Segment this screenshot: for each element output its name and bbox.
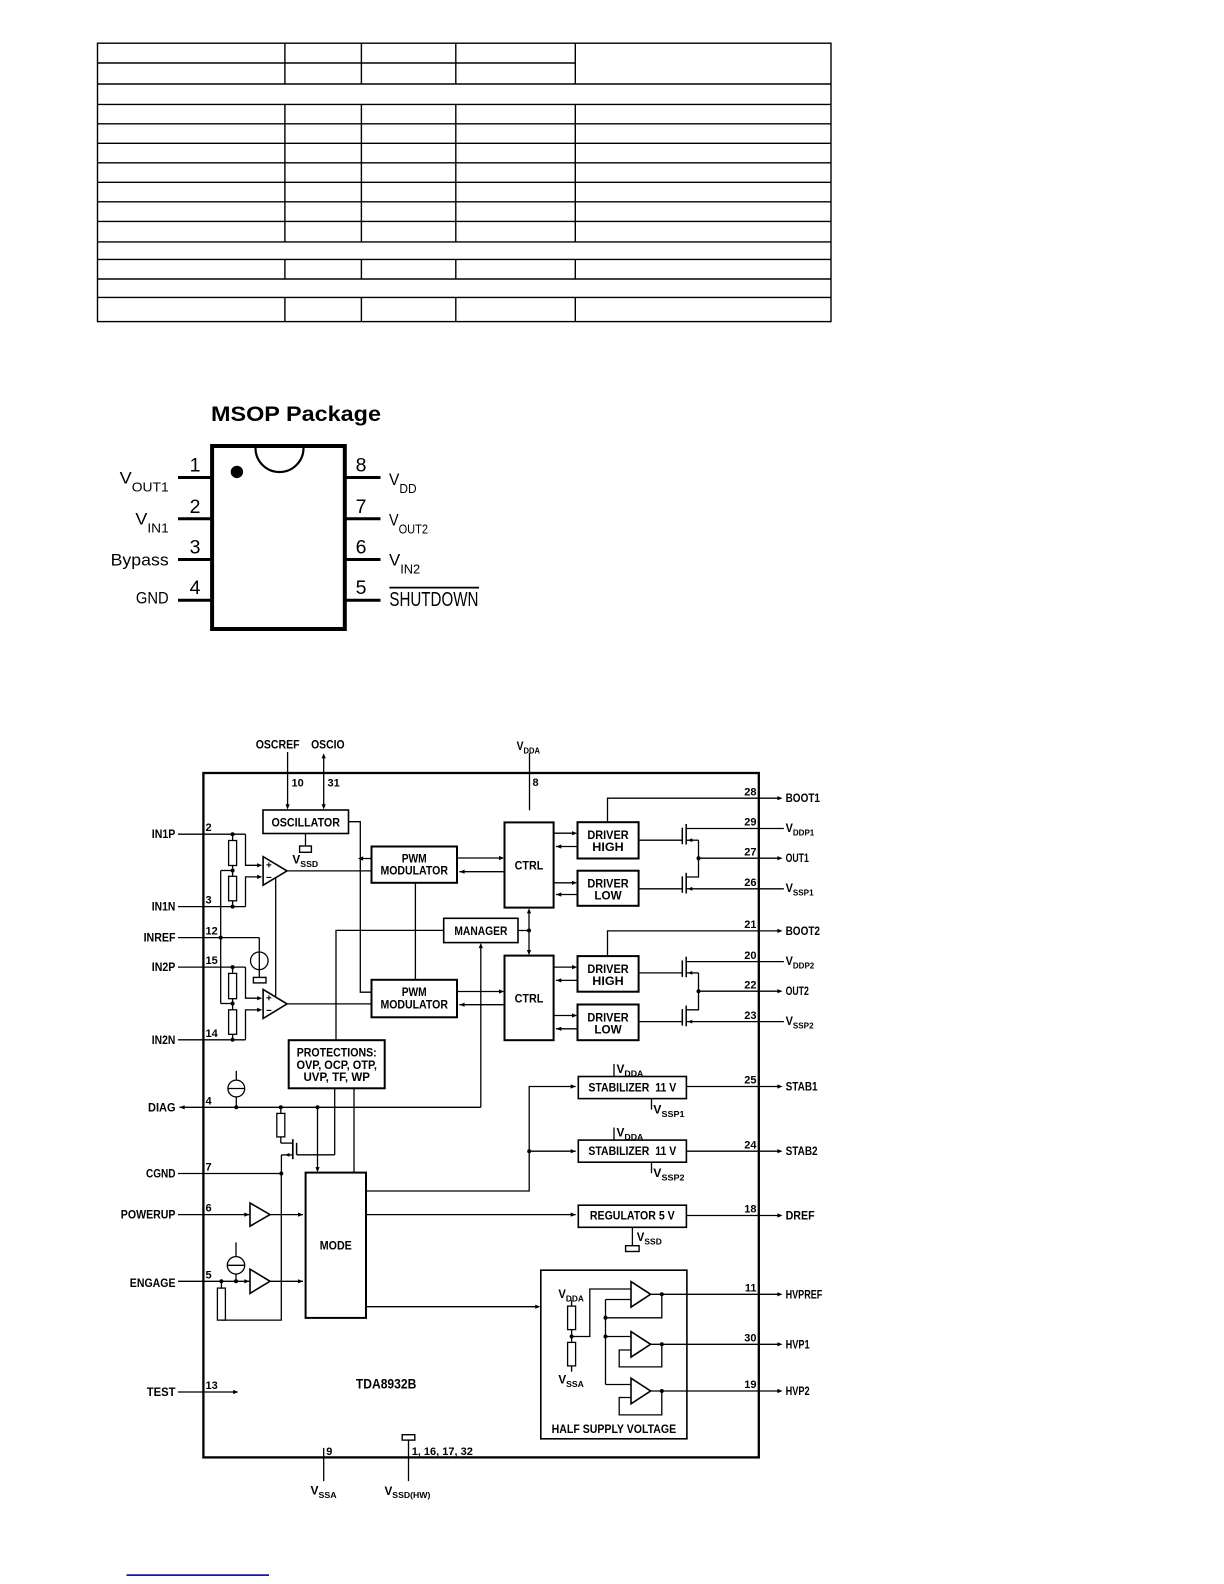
- svg-text:6: 6: [206, 1203, 212, 1215]
- DRIVER HIGH 1 block: [578, 822, 639, 858]
- current source INREF bias: [250, 938, 268, 978]
- pin 11 HVPREF: [745, 1283, 822, 1302]
- VSSP2 return STABILIZER2: [652, 1162, 685, 1182]
- svg-text:26: 26: [744, 877, 756, 889]
- pin 28 BOOT1: [744, 786, 820, 805]
- pin 6 POWERUP: [121, 1203, 250, 1222]
- svg-text:4: 4: [190, 577, 201, 599]
- table grid: [98, 43, 832, 321]
- VSSD(HW) pad: [402, 1435, 415, 1440]
- label VDD: [389, 470, 417, 496]
- pin 25 STAB1: [686, 1075, 818, 1094]
- label GND: [136, 588, 169, 607]
- svg-text:TDA8932B: TDA8932B: [356, 1376, 417, 1392]
- wire CTRL1 to PWM1: [459, 870, 504, 874]
- node buffer2 output: [660, 1342, 664, 1346]
- PWM modulator 1 block: [372, 847, 458, 883]
- svg-text:MODE: MODE: [320, 1239, 352, 1253]
- MSOP package body U1: [212, 446, 345, 629]
- pins 1,16,17,32 VSSD(HW): [385, 1440, 473, 1500]
- resistor DIAG series: [277, 1107, 285, 1143]
- node buffer1 output: [660, 1292, 664, 1296]
- MANAGER block: [444, 918, 518, 942]
- pin 20 VDDP2: [744, 950, 814, 971]
- wire comparator1 output to PWM modulator 1: [287, 870, 372, 872]
- svg-text:SHUTDOWN: SHUTDOWN: [389, 589, 478, 611]
- wire MODE to STABILIZER2: [529, 1149, 576, 1153]
- svg-text:OSCIO: OSCIO: [311, 740, 345, 752]
- wire PROTECTIONS to DIAG MOSFET gate: [334, 1088, 336, 1155]
- svg-text:HIGH: HIGH: [592, 840, 623, 854]
- svg-text:UVP, TF, WP: UVP, TF, WP: [303, 1070, 370, 1084]
- svg-text:STAB2: STAB2: [786, 1146, 818, 1158]
- buffer half-supply 1: [631, 1282, 651, 1308]
- MSOP pin 3: [178, 537, 212, 560]
- wire linking comparator bias: [275, 878, 277, 996]
- DRIVER HIGH 2 block: [578, 956, 639, 992]
- node buffer3 output: [660, 1389, 664, 1393]
- svg-text:1, 16, 17, 32: 1, 16, 17, 32: [412, 1446, 473, 1458]
- svg-text:STABILIZER 11 V: STABILIZER 11 V: [588, 1081, 676, 1095]
- svg-text:19: 19: [744, 1379, 756, 1391]
- svg-text:28: 28: [744, 786, 756, 798]
- MSOP pin 4: [178, 577, 212, 600]
- svg-text:CTRL: CTRL: [515, 859, 544, 873]
- pin 3 IN1N: [152, 895, 246, 914]
- oscillator block: [263, 810, 349, 834]
- svg-text:MODULATOR: MODULATOR: [380, 864, 448, 878]
- wire PROTECTIONS to MANAGER: [336, 930, 444, 1040]
- label SHUTDOWN (active low): [389, 588, 479, 612]
- wire CTRL1 to DRIVER LOW 1: [554, 881, 578, 885]
- pin 12 INREF: [144, 926, 260, 945]
- svg-text:OSCREF: OSCREF: [256, 740, 300, 752]
- svg-text:25: 25: [744, 1075, 756, 1087]
- svg-text:5: 5: [356, 577, 367, 599]
- resistor input divider R4: [229, 1004, 237, 1040]
- wire DRIVER LOW 2 to CTRL2: [556, 1027, 578, 1031]
- VSSA return divider: [558, 1375, 584, 1389]
- svg-text:INREF: INREF: [144, 933, 176, 945]
- part name TDA8932B: [356, 1376, 417, 1392]
- svg-text:14: 14: [206, 1028, 219, 1040]
- svg-text:DIAG: DIAG: [148, 1102, 176, 1114]
- svg-text:IN2N: IN2N: [152, 1035, 176, 1047]
- wire MODE to HALF SUPPLY VOLTAGE: [366, 1305, 540, 1309]
- svg-text:IN1P: IN1P: [152, 829, 176, 841]
- pin 26 VSSP1: [744, 877, 814, 898]
- wire BOOT1 from DRIVER HIGH 1: [608, 798, 759, 822]
- buffer half-supply 2: [631, 1332, 651, 1358]
- svg-text:OUT1: OUT1: [786, 853, 810, 865]
- svg-text:6: 6: [356, 537, 367, 559]
- wire DIAG to MANAGER: [479, 943, 483, 1107]
- svg-text:11: 11: [745, 1283, 757, 1295]
- svg-text:IN2P: IN2P: [152, 962, 176, 974]
- wire INREF to divider midpoints: [220, 871, 222, 1004]
- resistor input divider R2: [229, 871, 237, 907]
- pin 22 OUT2: [744, 979, 809, 998]
- VSSD pad under INREF current source: [253, 977, 266, 983]
- wire CTRL1 to DRIVER HIGH 1: [554, 831, 578, 835]
- svg-text:HVPREF: HVPREF: [786, 1289, 823, 1301]
- CTRL block 1: [505, 822, 554, 907]
- wire bus to buffer2 input: [606, 1336, 632, 1338]
- svg-text:29: 29: [744, 817, 756, 829]
- pin 9 VSSA: [311, 1446, 337, 1500]
- svg-text:8: 8: [533, 777, 539, 789]
- svg-text:TEST: TEST: [147, 1387, 176, 1399]
- pin 2 IN1P: [152, 822, 246, 841]
- svg-text:27: 27: [744, 846, 756, 858]
- node DIAG resistor junction: [279, 1105, 283, 1109]
- svg-text:HIGH: HIGH: [592, 974, 623, 988]
- op-amp comparator 2: [263, 989, 287, 1018]
- pin 29 VDDP1: [744, 817, 814, 838]
- svg-text:STABILIZER 11 V: STABILIZER 11 V: [588, 1144, 676, 1158]
- wire IN1P to comparator + input: [246, 834, 263, 867]
- node INREF junction: [219, 936, 223, 940]
- pin 14 IN2N: [152, 1028, 246, 1047]
- pin 19 HVP2: [744, 1379, 809, 1398]
- wire comparator2 output to PWM modulator 2: [287, 1003, 372, 1005]
- MSOP pin-1 dot: [231, 466, 243, 478]
- current source DIAG pull-up: [228, 1071, 245, 1107]
- svg-text:MSOP Package: MSOP Package: [211, 402, 381, 426]
- svg-text:2: 2: [206, 822, 212, 834]
- resistor ENGAGE pulldown: [217, 1281, 225, 1320]
- svg-text:HALF SUPPLY VOLTAGE: HALF SUPPLY VOLTAGE: [552, 1422, 677, 1436]
- MSOP pin 7: [345, 496, 381, 519]
- MSOP pin 1: [178, 455, 212, 478]
- svg-text:30: 30: [744, 1333, 756, 1345]
- STABILIZER 11V block 1: [578, 1077, 686, 1099]
- resistor half-supply divider top: [568, 1306, 576, 1336]
- VSSP1 return STABILIZER1: [652, 1099, 685, 1119]
- wire bus to buffer3 input: [606, 1384, 632, 1386]
- wire oscillator output to PWM modulators: [349, 822, 372, 993]
- svg-text:18: 18: [744, 1204, 756, 1216]
- svg-text:3: 3: [206, 895, 212, 907]
- svg-text:HVP2: HVP2: [786, 1386, 810, 1398]
- node ENGAGE current source junction: [234, 1279, 238, 1283]
- wire CTRL2 to DRIVER HIGH 2: [554, 965, 578, 969]
- node divider2 midpoint: [221, 1002, 235, 1006]
- label VOUT1: [120, 469, 169, 495]
- node ENGAGE resistor junction: [219, 1279, 223, 1283]
- buffer ENGAGE input: [244, 1269, 270, 1293]
- svg-text:31: 31: [328, 777, 340, 789]
- pin 30 HVP1: [744, 1333, 810, 1352]
- MSOP package pinout title: [211, 402, 381, 426]
- wire CGND to ENGAGE pulldown: [221, 1174, 281, 1321]
- pin 8 VDDA: [517, 741, 540, 810]
- transistor low-side MOSFET 2: [639, 991, 759, 1026]
- svg-text:OSCILLATOR: OSCILLATOR: [271, 815, 340, 829]
- svg-text:BOOT2: BOOT2: [786, 926, 820, 938]
- svg-text:CGND: CGND: [146, 1169, 176, 1181]
- pin 13 TEST: [147, 1380, 239, 1399]
- wire MODE to REGULATOR: [366, 1213, 576, 1217]
- node half-supply midpoint: [570, 1335, 574, 1339]
- node CGND junction: [279, 1172, 283, 1176]
- IC boundary box TDA8932B: [203, 773, 758, 1457]
- svg-text:GND: GND: [136, 588, 169, 607]
- svg-text:13: 13: [206, 1380, 218, 1392]
- svg-text:5: 5: [206, 1269, 212, 1281]
- wire OUT2 to pin: [699, 990, 759, 992]
- node OUT1: [697, 856, 701, 860]
- wire buffer2 output HVP1: [651, 1343, 759, 1345]
- wire IN2P to comparator2 + input: [246, 967, 263, 1000]
- VDDA feed divider: [558, 1289, 584, 1306]
- VSSD pad under REGULATOR: [626, 1227, 662, 1251]
- HALF SUPPLY VOLTAGE block: [541, 1270, 687, 1439]
- resistor input divider R3: [229, 967, 237, 1003]
- wire ENGAGE buffer to MODE: [270, 1279, 303, 1283]
- wire buffer1 output HVPREF: [651, 1293, 759, 1295]
- pin 18 DREF: [686, 1204, 814, 1223]
- resistor input divider R1: [229, 834, 237, 870]
- node DIAG current source junction: [234, 1105, 238, 1109]
- VDDA feed STABILIZER1: [614, 1064, 643, 1078]
- wire buffer2 feedback loop: [619, 1344, 662, 1367]
- MODE block: [306, 1173, 366, 1318]
- STABILIZER 11V block 2: [578, 1140, 686, 1162]
- pin 10 OSCREF: [256, 740, 304, 810]
- svg-text:IN1N: IN1N: [152, 902, 176, 914]
- PWM modulator 2 block: [372, 980, 458, 1018]
- svg-text:REGULATOR 5 V: REGULATOR 5 V: [590, 1208, 675, 1222]
- label VOUT2: [389, 510, 428, 536]
- pin 15 IN2P: [152, 955, 246, 974]
- pin 23 VSSP2: [744, 1010, 814, 1031]
- wire MODE to stabilizers: [366, 1084, 576, 1191]
- svg-text:Bypass: Bypass: [111, 551, 169, 570]
- svg-text:POWERUP: POWERUP: [121, 1210, 176, 1222]
- wire POWERUP buffer to MODE: [270, 1213, 303, 1217]
- svg-text:24: 24: [744, 1139, 757, 1151]
- CTRL block 2: [505, 956, 554, 1041]
- svg-text:1: 1: [190, 455, 201, 477]
- wire PWM1 to CTRL1: [457, 856, 504, 860]
- pin 4 DIAG: [148, 1095, 481, 1114]
- node stabilizer2 feed junction: [527, 1149, 531, 1153]
- MSOP pin 6: [345, 537, 381, 560]
- wire DRIVER HIGH 1 to CTRL1: [556, 844, 578, 848]
- PROTECTIONS block: [289, 1040, 385, 1088]
- wire IN2N to comparator2 - input: [246, 1008, 263, 1040]
- resistor half-supply divider bottom: [568, 1337, 576, 1372]
- svg-text:8: 8: [356, 455, 367, 477]
- MSOP pin 8: [345, 455, 381, 478]
- wire CTRL2 to PWM2: [459, 1003, 504, 1007]
- wire buffer3 output HVP2: [651, 1390, 759, 1392]
- REGULATOR 5V block: [578, 1205, 686, 1227]
- pin 31 OSCIO: [311, 740, 345, 810]
- svg-text:15: 15: [206, 955, 218, 967]
- VDDA feed STABILIZER2: [614, 1128, 643, 1142]
- svg-text:STAB1: STAB1: [786, 1082, 819, 1094]
- wire buffer3 feedback loop: [619, 1391, 662, 1415]
- svg-text:MANAGER: MANAGER: [454, 924, 507, 938]
- wire OUT1 to pin: [699, 857, 759, 859]
- node DIAG to MODE junction: [316, 1105, 320, 1109]
- svg-text:MODULATOR: MODULATOR: [380, 997, 448, 1011]
- node OUT2: [697, 989, 701, 993]
- node IN1N junction: [231, 905, 235, 909]
- svg-text:23: 23: [744, 1010, 756, 1022]
- MSOP pin 5: [345, 577, 381, 600]
- svg-text:HVP1: HVP1: [786, 1339, 810, 1351]
- transistor high-side MOSFET 1: [639, 824, 759, 858]
- node feedback bus mid: [604, 1335, 608, 1339]
- label Bypass: [111, 551, 169, 570]
- svg-text:LOW: LOW: [594, 1023, 622, 1037]
- transistor high-side MOSFET 2: [639, 957, 759, 992]
- footnote rule: [127, 1574, 270, 1576]
- wire DRIVER LOW 1 to CTRL1: [556, 892, 578, 896]
- node IN2N junction: [231, 1038, 235, 1042]
- pin 7 CGND: [146, 1162, 281, 1181]
- op-amp comparator 1: [263, 857, 287, 886]
- pin 5 ENGAGE: [130, 1269, 250, 1290]
- node IN2P junction: [231, 965, 235, 969]
- svg-text:OUT2: OUT2: [786, 986, 809, 998]
- svg-text:ENGAGE: ENGAGE: [130, 1278, 176, 1290]
- label VIN1: [135, 510, 168, 536]
- svg-text:BOOT1: BOOT1: [786, 793, 821, 805]
- wire CTRL2 to DRIVER LOW 2: [554, 1013, 578, 1017]
- svg-text:LOW: LOW: [594, 889, 622, 903]
- wire midpoint to buffer1 input: [572, 1289, 631, 1337]
- svg-text:2: 2: [190, 496, 201, 518]
- node divider1 midpoint: [221, 869, 235, 873]
- svg-text:12: 12: [206, 926, 218, 938]
- wire PWM2 to CTRL2: [457, 989, 504, 993]
- svg-text:7: 7: [356, 496, 367, 518]
- wire buffer1 feedback bus: [606, 1294, 662, 1384]
- VSSD pad under oscillator: [292, 834, 318, 869]
- transistor DIAG open-drain MOSFET: [281, 1139, 335, 1173]
- svg-text:DREF: DREF: [786, 1211, 815, 1223]
- label VIN2: [389, 550, 420, 576]
- wire DIAG branch to MODE: [315, 1107, 319, 1172]
- pin 21 BOOT2: [744, 919, 820, 938]
- buffer POWERUP input: [244, 1203, 270, 1226]
- node feedback bus top: [604, 1316, 608, 1320]
- svg-text:4: 4: [206, 1095, 213, 1107]
- svg-text:22: 22: [744, 979, 756, 991]
- wire BOOT2 from DRIVER HIGH 2: [608, 931, 759, 956]
- svg-text:21: 21: [744, 919, 756, 931]
- svg-text:CTRL: CTRL: [515, 992, 544, 1006]
- pin 27 OUT1: [744, 846, 809, 865]
- pin 24 STAB2: [686, 1139, 817, 1158]
- svg-text:3: 3: [190, 537, 201, 559]
- buffer half-supply 3: [631, 1378, 651, 1404]
- wire DRIVER HIGH 2 to CTRL2: [556, 978, 578, 982]
- svg-text:9: 9: [326, 1446, 332, 1458]
- transistor low-side MOSFET 1: [639, 858, 759, 893]
- svg-text:7: 7: [206, 1162, 212, 1174]
- wire MANAGER to CTRL1 and CTRL2: [518, 908, 531, 955]
- DRIVER LOW 2 block: [578, 1005, 639, 1041]
- current source ENGAGE bias: [227, 1242, 244, 1281]
- svg-text:20: 20: [744, 950, 756, 962]
- MSOP pin 2: [178, 496, 212, 519]
- wire IN1N to comparator - input: [246, 875, 263, 907]
- wire PROTECTIONS to MODE: [353, 1088, 355, 1172]
- wire PWM1 to PWM2 sync: [414, 883, 416, 980]
- svg-text:10: 10: [292, 777, 304, 789]
- node IN1P junction: [231, 832, 235, 836]
- DRIVER LOW 1 block: [578, 871, 639, 906]
